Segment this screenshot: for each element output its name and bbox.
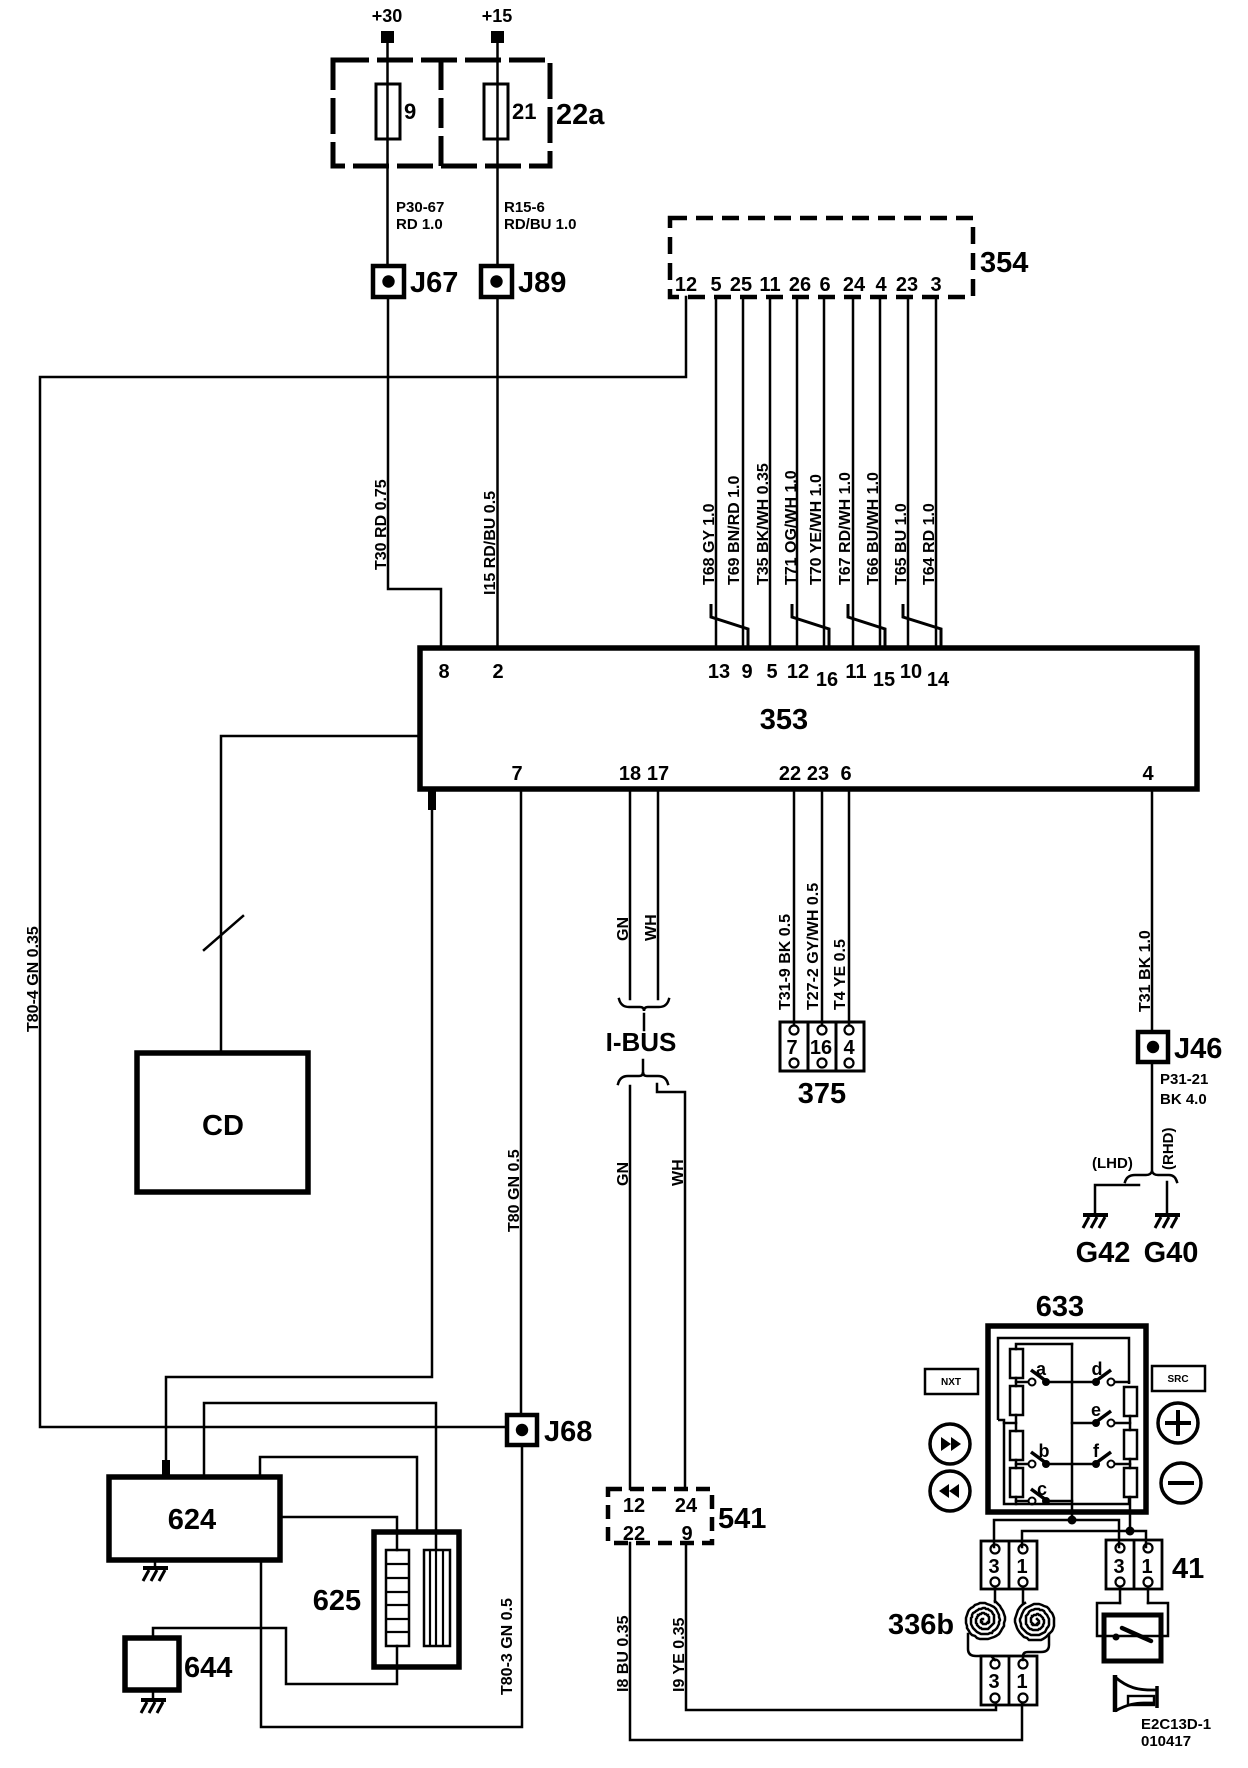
svg-text:J46: J46 [1174,1033,1222,1065]
node +15 terminal [482,6,513,43]
svg-text:6: 6 [840,763,851,785]
fuse box 22a (dashed) [333,60,605,166]
svg-text:24: 24 [675,1495,698,1517]
coil 336b left [888,1587,1005,1660]
wire 41 pin3 to horn switch [1119,1587,1122,1603]
633 switch d [1072,1359,1129,1386]
633 switch a [1016,1359,1072,1386]
button SRC [1152,1366,1205,1391]
svg-text:T27-2 GY/WH 0.5: T27-2 GY/WH 0.5 [805,883,822,1010]
svg-text:9: 9 [681,1523,692,1545]
svg-text:P31-21: P31-21 [1160,1071,1208,1088]
svg-text:T4 YE 0.5: T4 YE 0.5 [832,939,849,1010]
svg-text:375: 375 [798,1078,846,1110]
button seek back [930,1471,970,1511]
svg-text:541: 541 [718,1503,766,1535]
node junction 633 center [1068,1516,1077,1525]
connector 541 (dashed) [608,1489,766,1545]
svg-text:G42: G42 [1076,1237,1131,1269]
svg-text:13: 13 [708,661,730,683]
svg-text:R15-6: R15-6 [504,199,545,216]
connector 41 (3|1) [1106,1540,1204,1589]
633 center line [1071,1344,1074,1520]
svg-text:I-BUS: I-BUS [606,1027,677,1057]
svg-text:22: 22 [623,1523,645,1545]
wire 354 pin24 to 353 pin11 [852,297,855,648]
svg-text:5: 5 [710,274,721,296]
svg-text:14: 14 [927,669,950,691]
svg-text:T68 GY 1.0: T68 GY 1.0 [701,503,718,585]
svg-text:41: 41 [1172,1553,1204,1585]
svg-text:8: 8 [438,661,449,683]
svg-text:10: 10 [900,661,922,683]
svg-text:22: 22 [779,763,801,785]
svg-text:644: 644 [184,1652,232,1684]
twisted pair mark T71/T70 [792,604,829,646]
svg-text:T31-9 BK 0.5: T31-9 BK 0.5 [777,914,794,1010]
wire label P31-21 BK 4.0 [1160,1071,1208,1108]
svg-text:625: 625 [313,1585,361,1617]
svg-text:624: 624 [168,1504,216,1536]
svg-text:26: 26 [789,274,811,296]
svg-text:+30: +30 [372,6,403,26]
wire 353 pin17 WH down to brace [657,789,660,999]
svg-text:336b: 336b [888,1609,954,1641]
svg-text:RD 1.0: RD 1.0 [396,216,443,233]
svg-text:P30-67: P30-67 [396,199,444,216]
svg-text:T30 RD 0.75: T30 RD 0.75 [373,479,390,570]
fuse 9 [376,84,416,139]
wire 354 pin6 to 353 pin16 [823,297,826,648]
wire 354 pin26 to 353 pin12 [796,297,799,648]
unit 625 (antenna amplifier) [313,1532,459,1667]
wire 354 pin3 to 353 pin14 [935,297,938,648]
button NXT [925,1369,978,1394]
svg-text:T71 OG/WH 1.0: T71 OG/WH 1.0 [783,470,800,585]
svg-text:T31 BK 1.0: T31 BK 1.0 [1137,930,1154,1012]
wire 354 pin12 left bus to J68 [40,297,686,1427]
svg-text:4: 4 [875,274,887,296]
horn switch housing [1097,1603,1168,1636]
svg-text:3: 3 [988,1556,999,1578]
633 inner frame [998,1338,1129,1504]
wire 624 to 625 shield (x417) [260,1457,417,1532]
svg-text:WH: WH [670,1159,687,1186]
junction J67 [373,266,458,299]
svg-text:+15: +15 [482,6,513,26]
svg-text:18: 18 [619,763,641,785]
wire 353 pin23 to 375 pin16 [821,789,824,1025]
unit 633 (steering wheel controls) [988,1291,1146,1512]
svg-text:11: 11 [759,274,780,296]
svg-text:GN: GN [615,1162,632,1186]
svg-text:I9 YE 0.35: I9 YE 0.35 [671,1617,688,1692]
svg-text:J89: J89 [518,267,566,299]
wire 541 pin22 BU to connector 336b pin1 [630,1543,1022,1740]
633 left resistor chain [1004,1344,1072,1504]
wire to ground G42 (LHD) [1095,1185,1139,1213]
wire GN brace to 541 pin12 [629,1086,632,1489]
svg-text:23: 23 [896,274,918,296]
I-BUS dashes and label [606,1014,677,1073]
wire 354 pin11 to 353 pin5 [769,297,772,648]
wire 633 center to connectors pin3 [994,1520,1119,1547]
svg-text:6: 6 [819,274,830,296]
svg-text:7: 7 [786,1037,797,1059]
svg-text:11: 11 [845,661,866,683]
horn symbol [1115,1675,1158,1712]
junction J89 [481,266,566,299]
svg-text:23: 23 [807,763,829,785]
connector 336b upper (3|1) [981,1541,1037,1589]
svg-text:12: 12 [675,274,697,296]
svg-text:G40: G40 [1144,1237,1199,1269]
connector 354 (dashed) [670,218,1028,297]
I-BUS lower brace [618,1072,668,1084]
unit 624 (amplifier) [109,1477,280,1560]
svg-text:T67 RD/WH 1.0: T67 RD/WH 1.0 [837,472,854,585]
wire J67 to 353 pin 8 [388,297,441,648]
I-BUS upper brace [619,999,669,1011]
svg-text:633: 633 [1036,1291,1084,1323]
ground brace LHD/RHD [1125,1171,1177,1182]
svg-text:NXT: NXT [941,1377,961,1388]
connector 336b lower (3|1) [981,1656,1037,1705]
svg-text:7: 7 [511,763,522,785]
svg-text:2: 2 [492,661,503,683]
wire 353 pin4 to J46 [1151,789,1154,1032]
wire 354 pin25 to 353 pin9 [742,297,745,648]
svg-text:T80 GN 0.5: T80 GN 0.5 [506,1149,523,1232]
svg-text:25: 25 [730,274,752,296]
wire label R15-6 RD/BU 1.0 [504,199,577,233]
svg-text:12: 12 [623,1495,645,1517]
wire J68 down to 624 bottom [261,1445,522,1727]
button seek forward [930,1424,970,1464]
svg-text:T70 YE/WH 1.0: T70 YE/WH 1.0 [808,474,825,585]
633 right resistor chain [1124,1387,1137,1531]
svg-text:T80-3 GN 0.5: T80-3 GN 0.5 [499,1598,516,1695]
ground G42 [1076,1215,1131,1269]
wire 633 right to connectors pin1 [1022,1531,1146,1547]
node junction 633 right [1126,1527,1135,1536]
svg-text:1: 1 [1016,1556,1027,1578]
junction J68 [507,1415,592,1448]
wire 353 pin18 GN down to brace [629,789,632,999]
wire 354 pin4 to 353 pin15 [879,297,882,648]
wire 41 pin1 to horn switch [1147,1587,1150,1603]
wire 541 pin9 YE to connector 336b pin3 [686,1543,996,1710]
fuse 21 [484,84,536,139]
svg-text:22a: 22a [556,99,605,131]
wire 353 left edge to CD [221,736,420,1053]
svg-text:GN: GN [615,917,632,941]
coil 336b right [1015,1587,1054,1660]
wire +30 to J67 [386,43,389,266]
svg-text:17: 17 [647,763,669,785]
svg-text:SRC: SRC [1167,1374,1188,1385]
svg-text:010417: 010417 [1141,1733,1191,1750]
svg-text:3: 3 [1113,1556,1124,1578]
junction J46 [1138,1032,1222,1065]
svg-text:1: 1 [1016,1671,1027,1693]
node +30 terminal [372,6,403,43]
svg-text:353: 353 [760,704,808,736]
svg-text:(RHD): (RHD) [1160,1128,1177,1171]
svg-text:21: 21 [512,99,536,124]
svg-text:(LHD): (LHD) [1092,1155,1133,1172]
unit 644 [125,1638,232,1690]
svg-text:12: 12 [787,661,809,683]
svg-text:J68: J68 [544,1416,592,1448]
633 switch c [1016,1479,1072,1505]
svg-text:4: 4 [843,1037,855,1059]
ground at 624 [143,1560,168,1581]
button volume minus [1161,1463,1201,1503]
ground at 644 [141,1690,166,1713]
svg-text:T69 BN/RD 1.0: T69 BN/RD 1.0 [726,476,743,585]
svg-text:16: 16 [810,1037,832,1059]
svg-text:16: 16 [816,669,838,691]
unit 353 (audio head unit) [420,648,1197,789]
twisted pair mark T65/T64 [903,604,941,646]
svg-text:CD: CD [202,1110,244,1142]
wire 353 pin6 to 375 pin4 [848,789,851,1025]
svg-text:15: 15 [873,669,895,691]
wire 625 ladder bottom to 644 [153,1628,397,1684]
svg-text:I8 BU 0.35: I8 BU 0.35 [615,1615,632,1692]
wire WH brace to 541 pin24 [657,1084,685,1489]
svg-text:5: 5 [766,661,777,683]
svg-text:WH: WH [643,914,660,941]
wire 624 right to 625 ladder top [280,1517,397,1550]
button volume plus [1158,1403,1198,1443]
svg-text:e: e [1091,1400,1101,1420]
wire 354 pin23 to 353 pin10 [907,297,910,648]
twisted pair mark T67/T66 [848,604,885,646]
wire 624 to 625 striped element [204,1403,436,1550]
svg-text:E2C13D-1: E2C13D-1 [1141,1716,1211,1733]
svg-text:354: 354 [980,247,1028,279]
wire J46 to ground brace [1151,1062,1154,1172]
625 ladder element [386,1550,409,1646]
633 switch f [1072,1441,1130,1468]
633 switch e [1072,1400,1130,1427]
wire label P30-67 RD 1.0 [396,199,444,233]
wire +15 to J89 [496,43,499,266]
svg-text:J67: J67 [410,267,458,299]
svg-text:T66 BU/WH 1.0: T66 BU/WH 1.0 [865,472,882,585]
wire 353 pin22 to 375 pin7 [793,789,796,1025]
twisted pair mark T68/T69 [711,604,748,646]
svg-text:9: 9 [741,661,752,683]
horn switch 41 contact box [1104,1615,1161,1661]
svg-text:1: 1 [1141,1556,1152,1578]
svg-text:3: 3 [988,1671,999,1693]
wire 354 pin5 to 353 pin13 [715,297,718,648]
625 striped element [424,1550,450,1646]
svg-text:BK 4.0: BK 4.0 [1160,1091,1207,1108]
svg-text:f: f [1093,1441,1100,1461]
wire J89 to 353 pin 2 [496,297,499,648]
svg-text:T80-4 GN 0.35: T80-4 GN 0.35 [25,926,42,1032]
wire 353 pin7 to J68 [520,789,523,1415]
svg-text:4: 4 [1142,763,1154,785]
svg-text:T65 BU 1.0: T65 BU 1.0 [893,503,910,585]
wire 353 shield stub to 624 [166,789,432,1478]
optical-link slash on CD wire [204,916,243,950]
svg-text:9: 9 [404,99,416,124]
connector 375 [780,1022,864,1110]
svg-text:24: 24 [843,274,866,296]
wire to ground G40 (RHD) [1166,1182,1169,1213]
633 switch b [1016,1441,1072,1468]
svg-text:3: 3 [930,274,941,296]
svg-text:RD/BU 1.0: RD/BU 1.0 [504,216,577,233]
ground G40 [1144,1215,1199,1269]
svg-text:T35 BK/WH 0.35: T35 BK/WH 0.35 [755,463,772,585]
drawing code E2C13D-1 010417 [1141,1716,1211,1750]
unit CD (CD changer) [137,1053,308,1192]
svg-text:T64 RD 1.0: T64 RD 1.0 [921,503,938,585]
svg-text:I15 RD/BU 0.5: I15 RD/BU 0.5 [482,491,499,595]
